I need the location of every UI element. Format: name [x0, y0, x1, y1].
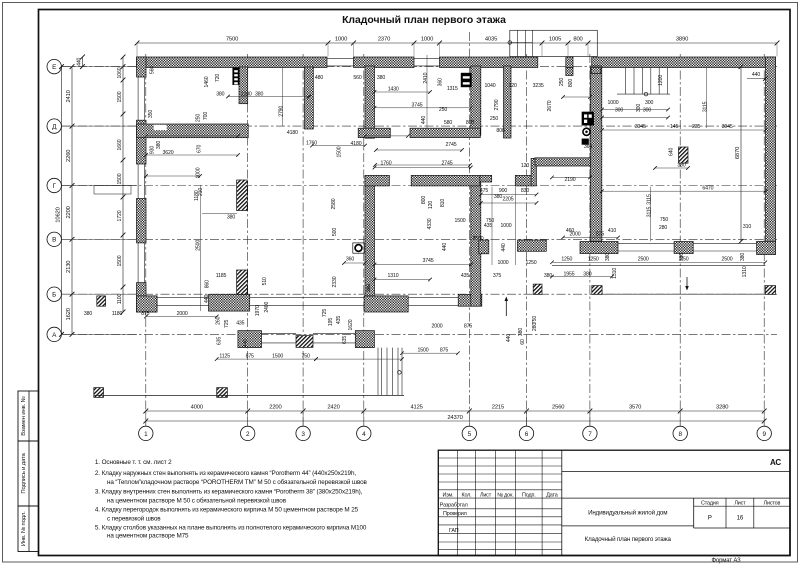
axis B wall stub at IW2 [479, 240, 489, 254]
svg-text:6: 6 [525, 431, 529, 438]
svg-text:В: В [52, 237, 56, 244]
svg-text:250: 250 [196, 114, 202, 122]
drain circle symbol [353, 243, 364, 253]
svg-text:1000: 1000 [501, 223, 512, 229]
svg-text:435: 435 [336, 316, 342, 324]
svg-text:3115: 3115 [703, 101, 709, 112]
svg-text:235: 235 [692, 124, 700, 130]
svg-text:380: 380 [605, 253, 611, 261]
svg-text:2670: 2670 [547, 100, 553, 111]
svg-text:875: 875 [464, 324, 472, 330]
svg-text:1060: 1060 [117, 67, 123, 78]
svg-text:560: 560 [353, 75, 361, 81]
svg-text:120: 120 [521, 163, 529, 169]
svg-text:260: 260 [216, 316, 222, 324]
svg-text:1500: 1500 [455, 218, 466, 224]
axis circles bottom 1-9 [139, 426, 153, 440]
svg-text:380: 380 [583, 271, 591, 277]
svg-text:3235: 3235 [533, 83, 544, 89]
svg-text:250: 250 [559, 78, 565, 86]
svg-text:1. Основные т. т. см. лист 2: 1. Основные т. т. см. лист 2 [95, 459, 172, 466]
interior partition near entrance [504, 66, 512, 138]
svg-text:120: 120 [508, 83, 516, 89]
right wing bottom wall [580, 242, 618, 254]
svg-text:4125: 4125 [410, 405, 422, 411]
svg-text:Формат А3: Формат А3 [712, 558, 742, 564]
svg-text:560: 560 [150, 66, 156, 74]
svg-text:2790: 2790 [279, 106, 285, 117]
svg-text:1: 1 [144, 431, 148, 438]
svg-text:750: 750 [301, 354, 309, 360]
svg-text:1760: 1760 [306, 140, 317, 146]
svg-text:360: 360 [584, 144, 592, 150]
svg-text:3745: 3745 [423, 258, 434, 264]
svg-text:1460: 1460 [204, 76, 210, 87]
hall wall step up [531, 158, 536, 186]
svg-text:435: 435 [236, 320, 244, 326]
svg-text:7500: 7500 [226, 37, 238, 43]
svg-text:375: 375 [493, 273, 501, 279]
extra internal dim verticals [706, 67, 708, 128]
horizontal grid axes [62, 66, 778, 68]
svg-text:750: 750 [660, 217, 668, 223]
svg-text:1720: 1720 [117, 210, 123, 221]
svg-text:Разработал: Разработал [440, 503, 468, 509]
svg-text:4035: 4035 [485, 37, 497, 43]
svg-text:2000: 2000 [177, 311, 188, 317]
svg-text:16: 16 [737, 515, 744, 522]
svg-text:380: 380 [544, 273, 552, 279]
svg-text:2745: 2745 [446, 142, 457, 148]
svg-text:310: 310 [743, 224, 751, 230]
bottom dimension chain [146, 410, 764, 412]
svg-text:3045: 3045 [722, 124, 733, 130]
svg-text:1310: 1310 [612, 268, 618, 279]
svg-text:4: 4 [362, 431, 366, 438]
svg-text:380: 380 [679, 253, 685, 261]
right dimension 6870 [740, 67, 742, 242]
svg-text:1500: 1500 [418, 348, 429, 354]
svg-text:195: 195 [328, 318, 334, 326]
svg-text:6870: 6870 [735, 147, 741, 159]
svg-text:460: 460 [566, 228, 574, 234]
svg-text:2205: 2205 [503, 197, 514, 203]
svg-text:580: 580 [444, 120, 452, 126]
svg-text:2: 2 [246, 431, 250, 438]
svg-text:2. Кладку наружных стен выполн: 2. Кладку наружных стен выполнять из кер… [95, 470, 356, 477]
svg-text:2200: 2200 [66, 206, 72, 218]
svg-text:380: 380 [216, 91, 224, 97]
svg-text:280: 280 [659, 225, 667, 231]
svg-text:4330: 4330 [427, 218, 433, 229]
svg-text:725: 725 [322, 309, 328, 317]
svg-text:Инв. № подл.: Инв. № подл. [20, 511, 27, 546]
svg-text:2745: 2745 [442, 161, 453, 167]
svg-text:1970: 1970 [255, 305, 261, 316]
slope arrow hall [505, 298, 507, 316]
interior wall on axis D left [137, 124, 249, 138]
bottom overall dimension [146, 420, 764, 422]
svg-text:1000: 1000 [498, 260, 509, 266]
terrace pillar row [533, 284, 542, 294]
svg-text:4180: 4180 [351, 141, 362, 147]
svg-text:2560: 2560 [552, 405, 564, 411]
svg-text:380: 380 [740, 253, 746, 261]
flue stack 1 [233, 68, 240, 85]
svg-text:Подп.: Подп. [522, 492, 536, 498]
axis connector lines [61, 66, 137, 68]
svg-text:1200: 1200 [658, 75, 664, 86]
svg-text:10620: 10620 [55, 207, 61, 222]
windows veranda [262, 332, 297, 334]
interior wall on axis D centre [358, 128, 390, 137]
svg-text:300: 300 [636, 104, 642, 112]
svg-text:2215: 2215 [492, 405, 504, 411]
bottom stair [381, 348, 383, 396]
veranda bottom dark pillar [296, 336, 313, 348]
svg-text:380: 380 [518, 328, 524, 336]
windows right wing bottom [618, 242, 674, 244]
svg-text:440: 440 [752, 72, 760, 78]
svg-text:1500: 1500 [117, 173, 123, 184]
svg-text:1620: 1620 [348, 319, 354, 330]
svg-text:2580: 2580 [331, 198, 337, 209]
vent block section mark [461, 73, 472, 87]
title block frame [438, 450, 790, 555]
title block columns left part [456, 450, 458, 555]
svg-text:2400: 2400 [264, 301, 270, 312]
svg-text:Индивидуальный жилой дом: Индивидуальный жилой дом [588, 509, 667, 516]
svg-text:250: 250 [439, 107, 447, 113]
svg-text:6470: 6470 [702, 186, 713, 192]
svg-text:875: 875 [246, 354, 254, 360]
svg-text:с перевязкой швов: с перевязкой швов [107, 515, 161, 523]
pillar right wing middle [679, 147, 689, 163]
svg-text:1250: 1250 [561, 257, 572, 263]
terrace edge line [552, 264, 765, 266]
svg-text:9: 9 [762, 431, 766, 438]
svg-text:2500: 2500 [196, 240, 202, 251]
svg-text:2410: 2410 [66, 90, 72, 102]
dim line left wing vertical [200, 185, 202, 311]
svg-text:1660: 1660 [117, 139, 123, 150]
svg-text:1000: 1000 [421, 37, 433, 43]
svg-text:440: 440 [421, 116, 427, 124]
svg-text:830: 830 [521, 188, 529, 194]
internal dim lines [228, 96, 309, 98]
bottom wall of main volume [137, 296, 158, 312]
svg-text:800: 800 [421, 196, 427, 204]
svg-text:на цементном растворе М 50 с о: на цементном растворе М 50 с обязательно… [107, 497, 287, 505]
svg-text:Стадия: Стадия [701, 500, 719, 506]
svg-text:1040: 1040 [485, 83, 496, 89]
svg-text:2500: 2500 [722, 257, 733, 263]
svg-text:3. Кладку внутренних стен выпо: 3. Кладку внутренних стен выполнять из к… [95, 489, 363, 496]
left axis distance chain [71, 67, 73, 335]
svg-text:Листов: Листов [764, 500, 781, 506]
svg-text:2190: 2190 [565, 177, 576, 183]
svg-text:120: 120 [428, 201, 434, 209]
svg-text:750: 750 [532, 316, 538, 324]
svg-text:380: 380 [156, 141, 162, 149]
svg-text:2330: 2330 [332, 276, 338, 287]
svg-text:АС: АС [770, 458, 781, 467]
svg-text:930: 930 [150, 146, 156, 154]
svg-text:2370: 2370 [378, 37, 390, 43]
svg-text:145: 145 [670, 124, 678, 130]
svg-text:1500: 1500 [337, 146, 343, 157]
svg-text:1315: 1315 [447, 86, 458, 92]
svg-text:1500: 1500 [117, 255, 123, 266]
svg-text:670: 670 [196, 145, 202, 153]
svg-text:3045: 3045 [635, 124, 646, 130]
svg-text:1760: 1760 [381, 161, 392, 167]
svg-text:800: 800 [496, 128, 504, 134]
svg-text:725: 725 [224, 320, 230, 328]
svg-text:510: 510 [262, 277, 268, 285]
svg-text:1100: 1100 [117, 293, 123, 304]
svg-text:1500: 1500 [272, 354, 283, 360]
svg-text:440: 440 [76, 57, 82, 65]
svg-text:1000: 1000 [608, 100, 619, 106]
svg-text:1310: 1310 [742, 266, 748, 277]
svg-text:3570: 3570 [629, 405, 641, 411]
svg-text:2790: 2790 [494, 99, 500, 110]
svg-text:440: 440 [204, 295, 210, 303]
svg-text:300: 300 [615, 108, 623, 114]
left exterior wall [137, 57, 147, 77]
svg-text:300: 300 [645, 100, 653, 106]
pillar axis B left [97, 296, 106, 306]
svg-text:Кладочный план первого этажа: Кладочный план первого этажа [585, 536, 672, 543]
windows bottom wall [157, 297, 209, 299]
svg-text:60: 60 [520, 339, 526, 345]
svg-text:1185: 1185 [216, 273, 227, 279]
svg-text:2410: 2410 [423, 72, 429, 83]
svg-text:Изм.: Изм. [443, 492, 454, 498]
svg-text:380: 380 [377, 75, 385, 81]
porch pillars bottom [94, 388, 104, 398]
stair pier dark [237, 270, 248, 294]
svg-text:2260: 2260 [66, 150, 72, 162]
svg-text:875: 875 [141, 311, 149, 317]
svg-text:3745: 3745 [412, 102, 423, 108]
svg-text:250: 250 [490, 116, 498, 122]
svg-text:440: 440 [506, 334, 512, 342]
svg-text:435: 435 [461, 273, 469, 279]
svg-text:635: 635 [342, 336, 348, 344]
svg-text:435: 435 [484, 223, 492, 229]
svg-text:2420: 2420 [327, 405, 339, 411]
svg-text:1955: 1955 [564, 271, 575, 277]
svg-text:Кладочный план первого этажа: Кладочный план первого этажа [342, 15, 506, 26]
svg-text:800: 800 [568, 79, 574, 87]
svg-text:440: 440 [442, 243, 448, 251]
svg-text:360: 360 [438, 78, 444, 86]
svg-text:1310: 1310 [388, 273, 399, 279]
entrance side stub [566, 68, 573, 76]
internal stair right wing [625, 68, 627, 95]
svg-text:860: 860 [205, 280, 211, 288]
svg-text:4180: 4180 [287, 130, 298, 136]
svg-text:3115: 3115 [647, 206, 653, 217]
pier mid-left upper [237, 180, 248, 211]
svg-text:1005: 1005 [549, 37, 561, 43]
svg-text:380: 380 [227, 215, 235, 221]
porch edge bottom [94, 394, 404, 396]
svg-text:1620: 1620 [66, 308, 72, 320]
svg-text:480: 480 [315, 75, 323, 81]
interior wall stub near axis 3 [305, 67, 314, 129]
interior wall hall south [365, 175, 389, 186]
svg-text:4000: 4000 [191, 405, 203, 411]
axis circles left [47, 59, 61, 73]
window well left [94, 186, 131, 195]
title block rows left part [438, 457, 562, 459]
svg-text:720: 720 [215, 74, 221, 82]
svg-text:700: 700 [203, 112, 209, 120]
svg-text:Кол.: Кол. [461, 492, 471, 498]
svg-text:3280: 3280 [716, 405, 728, 411]
svg-text:800: 800 [466, 120, 474, 126]
svg-text:Взамен инв. №: Взамен инв. № [20, 396, 27, 435]
svg-text:5: 5 [468, 431, 472, 438]
svg-text:1000: 1000 [196, 167, 202, 178]
axis B wall stub mid [518, 240, 547, 251]
svg-text:3620: 3620 [163, 150, 174, 156]
svg-text:Б: Б [52, 292, 56, 299]
svg-text:410: 410 [608, 228, 616, 234]
interior wall IW1 [365, 66, 375, 138]
svg-text:360: 360 [346, 257, 354, 263]
left inner chain [122, 57, 124, 312]
svg-text:3: 3 [301, 431, 305, 438]
top exterior wall [137, 57, 328, 68]
svg-text:7: 7 [588, 431, 592, 438]
svg-text:440: 440 [243, 339, 249, 347]
svg-text:380: 380 [677, 162, 685, 168]
svg-text:1500: 1500 [117, 91, 123, 102]
right wing bottom corner block [757, 241, 776, 254]
svg-text:380: 380 [84, 311, 92, 317]
svg-text:Подпись и дата: Подпись и дата [21, 452, 27, 493]
right exterior wall [766, 57, 776, 241]
left wall pilaster [146, 296, 157, 312]
veranda bottom piers [238, 331, 262, 348]
svg-text:350: 350 [148, 110, 154, 118]
svg-text:ГАП: ГАП [449, 528, 459, 534]
svg-text:Лист: Лист [480, 492, 492, 498]
windows top wall [327, 58, 354, 60]
top dimension chain [137, 42, 777, 44]
svg-text:800: 800 [573, 37, 582, 43]
svg-text:300: 300 [643, 108, 651, 114]
svg-text:440: 440 [501, 243, 507, 251]
small black box 360 [582, 139, 589, 145]
svg-text:1000: 1000 [335, 37, 347, 43]
svg-text:380: 380 [494, 194, 502, 200]
svg-text:875: 875 [596, 232, 604, 238]
windows left wall [137, 77, 139, 120]
left strip boxes [18, 391, 39, 441]
svg-text:2200: 2200 [269, 405, 281, 411]
svg-text:2000: 2000 [432, 324, 443, 330]
slope arrow terrace [686, 277, 688, 289]
svg-text:1250: 1250 [588, 257, 599, 263]
left overall dimension 10620 [61, 67, 63, 335]
svg-text:Проверил: Проверил [443, 511, 467, 517]
top wall step right of entrance [591, 68, 601, 74]
svg-text:Р: Р [708, 515, 712, 522]
right 440 dim [747, 78, 766, 80]
svg-text:Лист: Лист [734, 500, 746, 506]
svg-text:2500: 2500 [473, 236, 484, 242]
svg-text:810: 810 [440, 199, 446, 207]
interior wall right wing [590, 66, 602, 241]
svg-text:1430: 1430 [388, 87, 399, 93]
svg-text:635: 635 [216, 337, 222, 345]
thin partition right wing [535, 158, 590, 166]
interior wall IW2 [471, 66, 481, 135]
svg-text:4. Кладку перегородок выполнят: 4. Кладку перегородок выполнять из керам… [95, 507, 359, 514]
svg-text:380: 380 [366, 284, 372, 292]
entrance porch with steps top [510, 30, 598, 56]
svg-text:5. Кладку столбов указанных на: 5. Кладку столбов указанных на плане вып… [95, 524, 367, 532]
flue stack right wing [582, 112, 594, 125]
svg-text:Дата: Дата [546, 492, 557, 498]
svg-text:8: 8 [678, 431, 682, 438]
svg-text:875: 875 [440, 348, 448, 354]
svg-text:3890: 3890 [676, 37, 688, 43]
svg-text:2500: 2500 [638, 257, 649, 263]
boiler circle symbol [583, 128, 590, 135]
vertical grid axes [145, 54, 147, 426]
svg-text:на “Теплом”кладочном растворе: на “Теплом”кладочном растворе “POROTHERM… [107, 478, 368, 486]
title block right part [562, 470, 790, 472]
interior wall stub with flue [239, 67, 248, 104]
svg-text:24370: 24370 [447, 415, 462, 421]
svg-text:на цементном растворе М75: на цементном растворе М75 [107, 533, 189, 540]
svg-text:1125: 1125 [219, 354, 230, 360]
svg-text:1180: 1180 [112, 311, 123, 317]
svg-text:500: 500 [332, 228, 338, 236]
svg-text:380: 380 [255, 91, 263, 97]
left 440 dimension [82, 57, 84, 67]
svg-text:475: 475 [480, 188, 488, 194]
svg-text:2130: 2130 [66, 261, 72, 273]
svg-text:3115: 3115 [647, 194, 653, 205]
svg-text:640: 640 [669, 148, 675, 156]
svg-text:2200: 2200 [241, 91, 252, 97]
svg-text:№ док.: № док. [497, 492, 513, 498]
svg-text:210: 210 [198, 188, 204, 196]
svg-text:Е: Е [52, 64, 56, 71]
svg-text:1250: 1250 [526, 260, 537, 266]
